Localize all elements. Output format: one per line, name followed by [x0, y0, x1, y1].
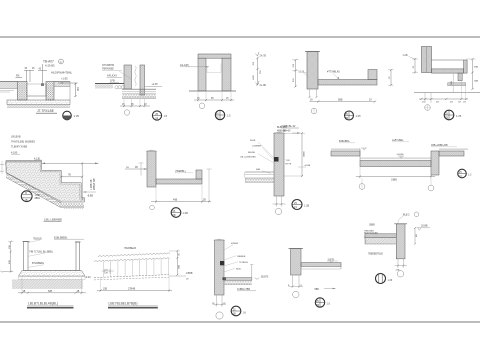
- D1 detail circle: [63, 111, 72, 120]
- svg-text:LBL:LBBNBE: LBL:LBBNBE: [44, 217, 62, 221]
- D10 axis circle left: [359, 184, 365, 190]
- D1 right ground hatch: [54, 81, 70, 83]
- D3 dim line: [194, 99, 234, 101]
- svg-text:1B: 1B: [316, 304, 319, 307]
- svg-text:5BB: 5BB: [315, 289, 320, 291]
- svg-text:1B: 1B: [23, 291, 26, 293]
- svg-text:3B.B75: 3B.B75: [261, 276, 269, 278]
- D14 column hatch: [291, 249, 302, 276]
- svg-text:xLBEBBF: xLBEBBF: [252, 146, 262, 148]
- svg-text:LRLBXB: LRLBXB: [11, 136, 21, 139]
- svg-text:3X: 3X: [310, 100, 313, 102]
- D7 right vertical dim: [81, 163, 83, 199]
- svg-text:#TT34BLK6: #TT34BLK6: [327, 71, 340, 74]
- D10 detail circle: [458, 169, 467, 178]
- D15 wall below lines: [397, 259, 399, 268]
- D3 leader arrow: [196, 66, 209, 68]
- svg-text:-0.00: -0.00: [85, 276, 91, 279]
- svg-text:4B: 4B: [135, 167, 138, 169]
- svg-text:B4BxBBA: B4BxBBA: [339, 140, 350, 143]
- svg-text:7BBBEBTBLB: 7BBBEBTBLB: [368, 253, 383, 255]
- D2 wall outer leaf hatch: [124, 65, 132, 89]
- svg-text:1:2B: 1:2B: [304, 205, 309, 208]
- D11 left wall: [24, 242, 29, 271]
- D7 left break line: [5, 161, 7, 173]
- D6 right dim lines: [472, 59, 474, 89]
- D15 right dim line: [414, 228, 416, 244]
- svg-text:Y1B: Y1B: [286, 160, 291, 162]
- D9 wall below lines: [276, 196, 278, 207]
- D13 axis circle: [216, 312, 223, 319]
- svg-text:BLB 2: BLB 2: [403, 213, 410, 216]
- svg-text:2BBLB WB: 2BBLB WB: [94, 178, 96, 190]
- D4 detail circle: [345, 111, 354, 120]
- D7 step dim line: [61, 176, 82, 178]
- D12 vertical grid lines: [104, 259, 169, 278]
- D3 baseline: [189, 90, 236, 92]
- D4 wall top cap: [305, 51, 320, 53]
- D9 axis circle: [275, 208, 281, 214]
- svg-text:BTLBBEBL: BTLBBEBL: [32, 262, 45, 265]
- svg-text:15B: 15B: [103, 288, 108, 290]
- D9 left slab loop row: [245, 179, 274, 183]
- D13 detail circle: [231, 306, 241, 316]
- D11 right wall: [76, 242, 80, 271]
- D10 sunken slab hatch: [360, 161, 431, 167]
- D14 slab hatch: [301, 263, 341, 267]
- svg-text:LBLxxLBELBBK: LBLxxLBELBBK: [240, 157, 256, 159]
- svg-text:7BLBLE: 7BLBLE: [33, 237, 42, 240]
- D3 right wall hatch: [222, 58, 231, 91]
- svg-text:TBRNXBE: TBRNXBE: [102, 68, 114, 71]
- svg-text:7F1BB-B: 7F1BB-B: [239, 262, 248, 264]
- D8 right upstand hatch: [196, 170, 202, 179]
- D1 bottom slab stipple: [7, 100, 70, 105]
- D6 detail circle: [444, 110, 454, 120]
- D1 right vertical dim: [75, 83, 77, 97]
- D8 detail circle: [171, 208, 181, 218]
- svg-text:4PBEB: 4PBEB: [231, 243, 239, 245]
- D14 column below lines: [292, 275, 294, 288]
- D3 left wall hatch: [198, 58, 206, 91]
- D12 bottom dim extension lines: [100, 278, 102, 292]
- D2 wall inner leaf hatch: [140, 65, 145, 95]
- D6 downstand leg hatch: [458, 73, 462, 81]
- D12 bottom dim line: [97, 289, 172, 291]
- D3 detail circle: [215, 110, 224, 119]
- D3 axis circle: [199, 103, 205, 109]
- svg-text:JBBBEB: JBBBEB: [237, 256, 246, 258]
- svg-text:1FB: 1FB: [110, 79, 115, 83]
- svg-text:1:2B: 1:2B: [183, 211, 189, 215]
- D15 slab upper band: [365, 234, 396, 238]
- D15 axis circle: [397, 271, 403, 277]
- D9 left slab lines: [245, 171, 274, 173]
- D6 inner vertical line: [452, 73, 454, 92]
- D7 soffit loop band: [6, 173, 84, 207]
- svg-text:33BB: 33BB: [391, 178, 397, 181]
- svg-text:LBLB7LBLBL4B(BL): LBLB7LBLBL4B(BL): [28, 302, 58, 306]
- D2 footing insulation loop row: [122, 94, 156, 98]
- D11 sub band: [19, 276, 86, 279]
- svg-text:2B: 2B: [345, 117, 348, 120]
- svg-text:TLBNFYXXBE: TLBNFYXXBE: [11, 146, 28, 149]
- D6 wall hatch: [422, 47, 432, 73]
- D10 axis circle right: [428, 185, 434, 191]
- D8 slab hatch: [156, 179, 202, 184]
- svg-text:HILDIFNWHTBNL: HILDIFNWHTBNL: [51, 71, 73, 75]
- svg-text:1.BBB: 1.BBB: [186, 272, 193, 275]
- svg-text:1 BB: 1 BB: [35, 195, 40, 197]
- D3 right dim line: [257, 58, 259, 86]
- svg-text:BLBTBLBxBB: BLBTBLBxBB: [364, 232, 378, 234]
- D6 below dim extension lines: [424, 93, 426, 104]
- D1 sub-base hatch strip: [7, 105, 70, 108]
- D11 basin inner bottom line: [28, 270, 76, 272]
- D10 step edge: [359, 149, 361, 161]
- D7 stepped top inner finish line: [6, 162, 85, 199]
- D2 dim line: [120, 105, 150, 107]
- D5 upstand curb hatch: [368, 70, 377, 80]
- D4 floor slab hatch: [318, 80, 377, 86]
- D15 detail circle: [376, 274, 386, 284]
- svg-text:BLBL: BLBL: [236, 269, 242, 271]
- D3 level mark top: [256, 52, 260, 56]
- D14 column top cap: [289, 248, 304, 250]
- D8 right edge line: [208, 169, 210, 202]
- D13 wall top break: [214, 239, 226, 241]
- D2 note leader line: [119, 71, 131, 79]
- D7 soffit lines: [6, 173, 62, 203]
- svg-text:4BB: 4BB: [256, 169, 261, 171]
- D12 small dim: [102, 270, 114, 272]
- D6 left dim line: [414, 59, 416, 73]
- D14 detail circle: [315, 298, 324, 307]
- D4 left dim line: [295, 60, 297, 88]
- D13 right edge line: [251, 265, 253, 281]
- svg-text:BTYB: BTYB: [286, 164, 292, 166]
- svg-text:1B: 1B: [233, 313, 236, 316]
- svg-text:2X: 2X: [369, 100, 372, 102]
- bottom sheet border line: [0, 321, 480, 323]
- svg-text:1.AB: 1.AB: [403, 54, 408, 57]
- svg-text:4B1B: 4B1B: [250, 140, 256, 142]
- svg-text:+B.BB: +B.BB: [304, 165, 311, 167]
- D10 bottom dim line: [356, 176, 435, 178]
- svg-text:1B: 1B: [77, 291, 80, 293]
- svg-text:1:5: 1:5: [327, 303, 331, 306]
- D11 bottom slab stipple: [19, 271, 86, 277]
- D13 slab hatch: [224, 278, 252, 281]
- svg-text:LLBTLBEL: LLBTLBEL: [392, 139, 404, 142]
- svg-text:AFLKXX: AFLKXX: [107, 74, 117, 78]
- D3 level mark bottom: [256, 81, 260, 85]
- svg-text:1:5: 1:5: [164, 114, 168, 118]
- D10 right slab hatch: [439, 151, 464, 156]
- D15 slab lower band: [365, 237, 396, 244]
- svg-text:2B: 2B: [173, 214, 176, 217]
- svg-text:+0.05: +0.05: [152, 83, 159, 86]
- D1 trench right wall crosshatch: [46, 82, 54, 101]
- svg-text:3=BBLx7BB: 3=BBLx7BB: [237, 288, 250, 291]
- svg-text:74B 7LTLBL BLLBBBL: 74B 7LTLBL BLLBBBL: [29, 250, 54, 253]
- svg-text:1B: 1B: [445, 117, 448, 120]
- D2 left floor hatch marks: [95, 84, 113, 88]
- D12 right dim line: [176, 251, 178, 275]
- D7 underside dotted line: [64, 208, 84, 210]
- svg-text:5BB: 5BB: [338, 99, 343, 102]
- D13 leader lines: [224, 256, 236, 260]
- svg-text:4.180: 4.180: [11, 151, 18, 154]
- D11 ground hatch: [12, 279, 83, 288]
- D15 slab left break: [364, 234, 366, 244]
- svg-text:2L-3B: 2L-3B: [260, 84, 267, 87]
- D3 dim extension lines: [197, 92, 199, 102]
- D6 baseline: [414, 92, 480, 94]
- D1 index circle A: [59, 59, 64, 64]
- D5 right dim line: [390, 70, 392, 85]
- svg-text:2xLG(P): 2xLG(P): [180, 64, 189, 67]
- svg-text:1:5: 1:5: [227, 114, 231, 118]
- D15 leader curve: [398, 217, 403, 224]
- svg-text:45B: 45B: [9, 260, 11, 264]
- svg-text:52B: 52B: [48, 291, 53, 293]
- D3 top beam hatch: [198, 54, 231, 58]
- D8 bottom dim extension lines: [155, 185, 157, 203]
- D13 slab loop row: [224, 281, 252, 284]
- D6 right end column hatch: [464, 60, 468, 73]
- svg-text:THM7(LBE) MLBBES: THM7(LBE) MLBBES: [11, 141, 35, 144]
- D10 bottom dim extension lines: [359, 167, 361, 179]
- D10 level mark left: [361, 147, 367, 149]
- D12 scallop line 2: [94, 258, 170, 262]
- svg-text:JT-TRXLBE: JT-TRXLBE: [37, 109, 54, 113]
- svg-text:1:29: 1:29: [388, 279, 393, 282]
- D11 left dim line: [10, 242, 12, 272]
- D13 wall below lines: [216, 295, 218, 307]
- D8 bottom dim line: [151, 201, 211, 203]
- svg-text:1B: 1B: [25, 199, 28, 202]
- D1 right level arrow line: [58, 82, 78, 84]
- svg-text:1:25: 1:25: [74, 114, 80, 118]
- svg-text:25.BB: 25.BB: [421, 224, 428, 227]
- svg-text:27B4B: 27B4B: [128, 287, 136, 290]
- D2 footing slab lines: [122, 88, 156, 90]
- svg-text:2B: 2B: [203, 199, 206, 201]
- D6 axis circle: [425, 105, 431, 111]
- svg-text:2BBL: 2BBL: [35, 198, 41, 200]
- D4 wall hatch: [307, 52, 318, 90]
- svg-text:(7BEBBL): (7BEBBL): [175, 170, 186, 173]
- D13 weld black mark: [223, 277, 227, 280]
- svg-text:7B: 7B: [68, 175, 71, 177]
- svg-text:2A.7B: 2A.7B: [260, 55, 267, 58]
- svg-text:JBBB: JBBB: [369, 224, 375, 226]
- svg-text:4BB: 4BB: [474, 67, 479, 69]
- D7 stair body stipple: [6, 161, 85, 203]
- D1 ground line left: [0, 81, 18, 83]
- D2 wall cavity insulation squiggle: [135, 66, 137, 86]
- svg-text:1BBB: 1BBB: [304, 151, 306, 157]
- svg-text:3BB: 3BB: [178, 264, 180, 269]
- D14 axis circle: [293, 291, 299, 297]
- D13 embedded plate black square: [220, 261, 224, 265]
- D6 lower strip hatch: [448, 83, 466, 86]
- D1 trench left wall crosshatch: [18, 82, 28, 101]
- D1 cavity leader end mark: [41, 83, 44, 86]
- D8 wall top break: [146, 150, 157, 152]
- D15 wall hatch: [396, 224, 405, 259]
- svg-text:2AB: 2AB: [474, 80, 479, 83]
- svg-text:LBE7BLBELB7B(B): LBE7BLBELB7B(B): [109, 302, 138, 306]
- svg-text:-B.BB: -B.BB: [87, 195, 93, 197]
- D9 embedded plate black square: [274, 157, 279, 162]
- D6 below dim line: [419, 98, 468, 100]
- svg-text:46B: 46B: [173, 198, 178, 201]
- D9 wall hatch: [274, 133, 284, 196]
- D10 right wall hatch: [431, 151, 439, 175]
- D10 left slab hatch: [331, 151, 360, 156]
- D6 slab top line: [432, 59, 464, 61]
- D7 left edge ticks: [0, 164, 4, 166]
- svg-text:BBLBE: BBLBE: [248, 152, 256, 154]
- D7 landing finish hatch: [6, 161, 42, 163]
- D11 leader lines: [26, 240, 40, 243]
- svg-text:1EB: 1EB: [451, 80, 453, 85]
- svg-text:A-25-B5: A-25-B5: [45, 64, 55, 68]
- svg-text:B1BLBBEBL: B1BLBBEBL: [54, 236, 68, 239]
- D8 wall hatch: [147, 151, 156, 187]
- D2 left insulation loops: [115, 86, 118, 89]
- D11 bottom dim extension lines: [21, 277, 23, 294]
- D8 axis circle: [150, 205, 155, 210]
- D2 axis circle: [124, 110, 129, 115]
- D2 left floor thick line: [95, 83, 124, 85]
- svg-text:1:25: 1:25: [456, 114, 462, 118]
- D12 bottom dashed lines: [94, 275, 169, 278]
- svg-text:1:25: 1:25: [356, 114, 362, 118]
- D9 slab left break: [244, 172, 246, 182]
- D15 wall top cap: [394, 223, 407, 225]
- D1 left soil hatch: [0, 82, 18, 89]
- svg-text:+1.85: +1.85: [61, 77, 68, 81]
- D7 section circle: [21, 191, 32, 202]
- D8 left dim: [125, 168, 147, 170]
- D7 long dim arrow: [42, 162, 99, 164]
- svg-text:1800: 1800: [253, 74, 255, 80]
- D4 bottom dim line: [310, 101, 376, 103]
- svg-text:7BLBBELB: 7BLBBELB: [124, 247, 136, 250]
- D2 detail circle: [152, 111, 161, 120]
- D9 wall top break: [273, 132, 285, 134]
- D12 scallop line 1: [98, 253, 170, 257]
- D6 slab hatch band: [432, 69, 464, 73]
- D11 bottom dim line: [18, 292, 86, 294]
- svg-text:2X: 2X: [144, 104, 147, 106]
- D13 bracket and level: [255, 278, 260, 280]
- D9 detail circle: [292, 200, 302, 210]
- D9 leader lines: [258, 142, 274, 158]
- D2 right ground line: [145, 86, 163, 88]
- D3 inner faint rect: [207, 64, 221, 73]
- D13 wall hatch: [215, 240, 225, 295]
- svg-text:1BB+LBBK+BB: 1BB+LBBK+BB: [431, 144, 448, 147]
- D6 end extension lines: [465, 86, 467, 100]
- svg-text:RX: RX: [16, 74, 20, 78]
- D4 axis circle: [311, 108, 317, 114]
- top sheet border line: [0, 36, 480, 38]
- D1 leader vertical lines: [26, 70, 28, 82]
- svg-text:15B: 15B: [9, 245, 11, 249]
- D4 wall below lines: [309, 89, 311, 98]
- D2 dim extension lines: [123, 99, 125, 108]
- D11 left ground line: [2, 271, 13, 273]
- svg-text:TB-A07: TB-A07: [43, 60, 54, 64]
- D9 right dim line: [301, 133, 303, 176]
- D1 trench cavity: [27, 84, 46, 96]
- D7 right level arrow: [83, 191, 96, 193]
- svg-text:1.2BB=2B: 1.2BB=2B: [91, 179, 93, 190]
